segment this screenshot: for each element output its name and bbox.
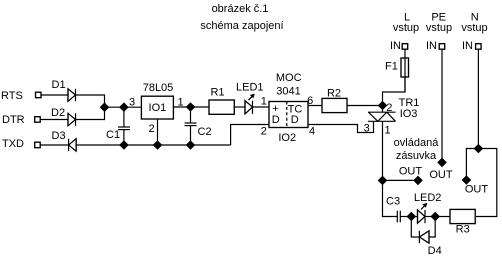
svg-text:D1: D1 [52,79,66,91]
wire to LED2 [411,216,417,218]
diode D3 (points left) [69,139,77,152]
terminal diamond N OUT [462,175,472,185]
wire L node down to C3 [383,180,398,216]
regulator IO1 box [141,96,173,119]
svg-text:4: 4 [309,126,315,138]
svg-text:IO2: IO2 [278,132,296,144]
LED2 arrowhead [422,203,427,208]
svg-text:F1: F1 [385,61,398,73]
svg-text:vstup: vstup [426,22,452,34]
svg-text:LED2: LED2 [414,192,442,204]
svg-text:D: D [291,114,299,126]
LED2 [418,205,426,224]
svg-text:2: 2 [261,126,267,138]
terminal diamond PE OUT [437,158,447,168]
terminal PE IN [439,44,445,50]
wire D1 to junction [76,95,105,107]
wire PE line [441,49,443,162]
wire LED1 to IO2 pin1 [253,106,270,108]
resistor R2 [322,98,347,112]
svg-text:OUT: OUT [399,166,423,178]
svg-text:3: 3 [364,123,370,135]
wire to L OUT terminal [383,179,419,181]
fuse F1 [401,58,409,77]
svg-text:D: D [272,114,280,126]
svg-text:C1: C1 [106,129,120,141]
svg-text:IO1: IO1 [149,102,167,114]
svg-text:D3: D3 [52,130,66,142]
junction diamond C1 top [119,102,129,112]
wire ground rail [76,144,231,146]
wire TXD to D3 [40,144,68,146]
svg-text:78L05: 78L05 [143,82,174,94]
svg-text:2: 2 [148,123,154,135]
svg-text:IO3: IO3 [400,108,418,120]
svg-text:C3: C3 [386,196,400,208]
junction diamond L OUT node [378,176,388,186]
svg-text:vstup: vstup [461,22,487,34]
terminal diamond L OUT [413,176,423,186]
svg-text:R3: R3 [456,224,470,236]
wire junction to R3 [435,216,449,218]
wire DTR to D2 [40,119,68,121]
diode D1 [68,89,76,102]
terminal RTS [36,92,42,98]
svg-text:D4: D4 [428,245,442,257]
wire IO2 pin4 to gate [308,121,374,132]
svg-text:ovládaná: ovládaná [394,137,440,149]
svg-text:IN: IN [426,40,437,52]
wire D2 to junction [76,107,105,119]
junction diamond C2 bottom [186,140,196,150]
triac IO3 [368,112,396,121]
terminal L IN [402,44,408,50]
wire N to R3 riser [476,149,497,217]
optocoupler IO2 box [269,102,308,128]
junction diamond LED2 right [430,212,440,222]
svg-text:DTR: DTR [2,114,25,126]
svg-text:LED1: LED1 [236,82,264,94]
wire N to N OUT [466,149,478,181]
svg-text:D2: D2 [51,107,65,119]
wire R2 to triac MT2 [347,105,383,107]
wire LED2 to junction [425,216,435,218]
junction diamond D1/D2 [100,102,110,112]
svg-text:schéma zapojení: schéma zapojení [200,20,283,32]
junction diamond MT2 [378,101,388,111]
svg-text:2: 2 [386,102,392,114]
optocoupler divider dashed [286,102,288,128]
svg-text:IN: IN [462,40,473,52]
svg-text:zásuvka: zásuvka [396,150,437,162]
junction diamond pin2 rail [153,140,163,150]
LED1 arrowhead [250,94,255,99]
LED1 [245,95,253,114]
capacitor C3 [397,211,411,223]
wire pin1 IO1 to R1 [173,106,209,108]
capacitor C2 [185,107,197,145]
svg-text:3041: 3041 [276,85,300,97]
svg-text:1: 1 [261,96,267,108]
svg-text:OUT: OUT [429,169,453,181]
wire IO2 pin6 to R2 [308,105,322,107]
svg-text:C2: C2 [198,126,212,138]
svg-text:TR1: TR1 [399,97,420,109]
svg-text:R2: R2 [327,88,341,100]
diode D2 [68,113,76,126]
junction diamond C1 bottom [119,140,129,150]
svg-text:RTS: RTS [1,90,23,102]
terminal TXD [35,142,41,148]
wire pin2 IO1 to rail [157,119,159,145]
terminal DTR [35,117,41,123]
resistor R1 [209,100,234,114]
svg-text:R1: R1 [210,87,224,99]
svg-text:3: 3 [129,97,135,109]
wire D4 branch right [429,217,435,238]
svg-text:1: 1 [384,125,390,137]
svg-text:obrázek č.1: obrázek č.1 [212,3,269,15]
wire RTS to D1 [41,94,68,96]
junction diamond LED2 left [407,212,417,222]
wire R1 to LED1 [234,106,246,108]
wire MT2 up to L line [383,77,406,112]
svg-text:MOC: MOC [276,72,302,84]
wire IO2 pin2 to rail [231,125,269,146]
junction diamond N [474,144,484,154]
wire N line [477,49,479,148]
svg-text:vstup: vstup [393,22,419,34]
wire junction to C1 node [105,106,142,108]
svg-text:IN: IN [390,40,401,52]
svg-text:TXD: TXD [2,138,24,150]
wire triac MT1 down [382,121,384,180]
svg-text:OUT: OUT [465,184,489,196]
capacitor C1 [118,107,130,145]
resistor R3 [450,209,475,223]
junction diamond C2 top [186,102,196,112]
wire D4 branch left [411,217,419,238]
diode D4 (points left) [419,231,429,243]
terminal N IN [476,44,482,50]
wire L IN to fuse [404,49,406,92]
